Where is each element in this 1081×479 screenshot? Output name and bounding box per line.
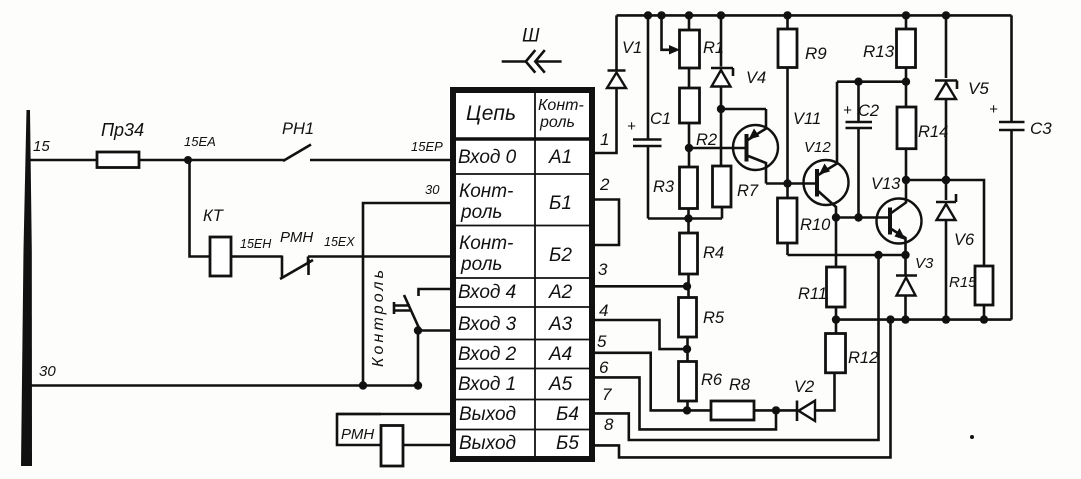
svg-text:1: 1	[600, 130, 609, 149]
junction	[359, 381, 367, 389]
node R11/R12 on bottom rail	[832, 315, 840, 323]
resistor R15	[975, 266, 993, 305]
node R8/V2/pin6	[772, 406, 780, 414]
left harness bus bar	[21, 110, 32, 466]
svg-text:15ЕР: 15ЕР	[411, 139, 443, 154]
svg-text:R5: R5	[703, 309, 725, 327]
wire pin 6	[592, 377, 776, 429]
junction	[414, 381, 422, 389]
svg-text:R11: R11	[798, 285, 827, 303]
svg-text:5: 5	[597, 332, 607, 351]
wire Б1 row to 30 bus	[363, 203, 453, 386]
node V4 / V11 emitter / R7	[717, 105, 725, 113]
resistor R7	[713, 166, 732, 207]
transistor V11	[733, 125, 778, 170]
pushbutton actuator	[394, 302, 410, 314]
resistor R8	[711, 401, 754, 420]
svg-text:8: 8	[604, 415, 614, 434]
rheostat wiper arrow to R1	[662, 15, 673, 49]
svg-text:15ЕХ: 15ЕХ	[324, 235, 355, 249]
wire C1 bottom node	[648, 217, 722, 220]
resistor R14	[905, 82, 908, 180]
relay coil box	[381, 426, 403, 467]
svg-text:6: 6	[599, 358, 609, 377]
node R2 bottom / V11 base	[688, 123, 691, 167]
wire R8 to V2	[754, 409, 797, 412]
svg-text:С1: С1	[650, 110, 671, 128]
svg-text:А3: А3	[548, 314, 573, 335]
svg-text:R7: R7	[737, 182, 759, 200]
svg-text:V12: V12	[804, 139, 831, 156]
resistor R9	[786, 15, 789, 198]
svg-text:2: 2	[599, 175, 610, 194]
svg-text:РМН: РМН	[341, 426, 374, 443]
svg-text:Б2: Б2	[549, 245, 572, 266]
svg-text:V2: V2	[794, 378, 814, 396]
svg-text:R3: R3	[653, 178, 675, 196]
stray ink speck	[970, 435, 974, 439]
svg-text:Конт-: Конт-	[459, 233, 513, 254]
capacitor C1	[647, 15, 650, 218]
resistor R3	[680, 167, 698, 209]
svg-text:15: 15	[33, 138, 50, 155]
svg-text:Выход: Выход	[459, 404, 516, 425]
relay contact KT	[210, 237, 231, 276]
svg-text:R12: R12	[848, 349, 878, 367]
node pin3	[683, 282, 691, 290]
wire pin 3	[592, 285, 688, 288]
zener V6	[936, 194, 956, 202]
svg-text:V13: V13	[871, 175, 901, 193]
svg-text:Б5: Б5	[556, 433, 579, 454]
svg-text:роль: роль	[460, 202, 502, 223]
svg-text:15ЕН: 15ЕН	[240, 237, 272, 251]
relay coil РМН assembly: label frame	[337, 414, 381, 445]
node 15EA	[184, 156, 192, 164]
wire 15EH	[231, 255, 282, 258]
bus 30	[29, 384, 419, 387]
zener V4	[711, 68, 733, 76]
wire coil to row Б5	[403, 444, 453, 447]
svg-text:Ш: Ш	[522, 26, 540, 47]
resistor R13	[905, 15, 908, 81]
svg-text:Цепь: Цепь	[466, 102, 516, 125]
svg-text:Конт-: Конт-	[459, 181, 513, 202]
pushbutton Контроль: fixed contact wire to table	[419, 289, 454, 296]
svg-text:+: +	[843, 102, 852, 119]
svg-text:30: 30	[39, 363, 56, 380]
svg-text:7: 7	[602, 385, 612, 404]
svg-text:V4: V4	[746, 69, 766, 87]
svg-text:R6: R6	[701, 371, 723, 389]
wire R2 node to V11 base	[689, 147, 747, 150]
table row lines	[451, 174, 595, 430]
svg-text:Вход 4: Вход 4	[458, 282, 516, 303]
svg-text:С3: С3	[1030, 119, 1052, 138]
svg-text:Б4: Б4	[556, 404, 579, 425]
wire pin 8	[592, 320, 891, 458]
top supply rail	[617, 14, 1012, 17]
svg-text:R15: R15	[949, 274, 977, 291]
node at blade bottom	[414, 326, 422, 334]
diode V3	[904, 255, 907, 320]
node pin5 / R8	[683, 406, 691, 414]
node V13 emitter / R10 / pin7	[788, 254, 906, 257]
svg-text:С2: С2	[858, 102, 879, 120]
svg-text:А1: А1	[548, 147, 572, 168]
svg-text:А4: А4	[548, 344, 572, 365]
resistor R10	[778, 198, 798, 243]
svg-text:R4: R4	[703, 244, 724, 262]
wire node to table row Вход 3	[418, 329, 453, 332]
diode V1	[608, 69, 626, 72]
svg-text:15ЕА: 15ЕА	[184, 134, 216, 149]
capacitor C3	[1010, 15, 1013, 319]
svg-text:R13: R13	[863, 42, 895, 61]
transistor V13	[877, 199, 922, 244]
capacitor C2	[857, 82, 860, 218]
node pin4	[683, 345, 691, 353]
svg-text:РМН: РМН	[280, 229, 313, 246]
wire 15 from bus to fuse	[29, 159, 97, 162]
table column divider	[534, 90, 536, 459]
svg-text:Контроль: Контроль	[370, 270, 387, 367]
zener V5	[935, 81, 957, 90]
svg-text:Вход 1: Вход 1	[458, 374, 516, 395]
pushbutton blade	[404, 295, 419, 328]
diode V2	[796, 401, 799, 422]
svg-text:Выход: Выход	[459, 433, 516, 454]
wire pin 7	[592, 255, 879, 440]
svg-text:+: +	[627, 118, 636, 135]
svg-text:Конт-: Конт-	[538, 97, 584, 114]
svg-text:R14: R14	[918, 123, 948, 141]
transistor V12	[804, 160, 849, 205]
wire node down to bus 30	[417, 331, 420, 386]
node V12 emitter / V13 base / R11	[832, 213, 840, 221]
svg-text:роль: роль	[460, 254, 502, 275]
svg-text:V11: V11	[793, 110, 821, 128]
svg-text:R10: R10	[800, 216, 831, 234]
resistor R2	[680, 88, 700, 123]
resistor R4	[680, 233, 698, 274]
wire from node 15EA down to KT	[190, 160, 211, 257]
wire collector node to V5/V6 and R15	[906, 180, 984, 266]
pin 2 jumper Б1-Б2	[592, 200, 619, 246]
svg-text:КТ: КТ	[203, 207, 225, 225]
svg-text:V6: V6	[954, 231, 975, 249]
svg-text:V1: V1	[622, 39, 642, 57]
svg-text:30: 30	[425, 182, 440, 197]
svg-text:РН1: РН1	[282, 120, 314, 138]
table header divider	[451, 137, 595, 140]
svg-text:роль: роль	[539, 114, 575, 131]
svg-text:Б1: Б1	[549, 193, 572, 214]
svg-text:4: 4	[599, 301, 608, 320]
svg-text:V3: V3	[915, 255, 934, 272]
resistor R5	[679, 298, 697, 338]
bottom node rail	[836, 318, 1012, 321]
svg-text:3: 3	[598, 260, 608, 279]
wire 15EX to table (crosses vertical)	[308, 255, 453, 258]
svg-text:Вход 2: Вход 2	[458, 344, 517, 365]
diode V1 branch: pin1 wire	[592, 15, 617, 153]
wire pin 4	[592, 320, 686, 349]
svg-text:А5: А5	[548, 374, 573, 395]
wire to V12 base	[766, 182, 817, 185]
connector table outline	[453, 90, 592, 459]
svg-text:R2: R2	[696, 131, 717, 149]
wire V12 collector line to R13 bottom	[837, 80, 906, 83]
svg-text:R9: R9	[805, 44, 827, 63]
wire pin 5	[592, 353, 711, 411]
wire 15EA	[139, 159, 284, 162]
svg-text:А2: А2	[548, 282, 573, 303]
wire to V13 base + down to R11	[836, 218, 890, 268]
zener V4 branch	[720, 15, 723, 166]
wire V2 to R12 bottom	[815, 373, 835, 411]
zener V5 branch	[945, 15, 948, 319]
svg-text:V5: V5	[968, 79, 989, 98]
node R14 / V13 collector	[902, 176, 910, 184]
wire V4 node to V11 emitter	[721, 108, 766, 111]
svg-text:+: +	[989, 101, 998, 118]
node V11 collector / R9 / R10 / V12 base	[783, 179, 791, 187]
resistor R1	[688, 15, 691, 88]
fuse Пр34	[97, 152, 139, 168]
svg-text:R8: R8	[729, 376, 751, 394]
svg-text:Пр34: Пр34	[101, 120, 144, 140]
wire 15EP to table	[310, 159, 453, 162]
svg-text:Вход 3: Вход 3	[458, 314, 517, 335]
resistor R11	[827, 267, 846, 307]
resistor R6	[679, 362, 697, 402]
svg-text:Вход 0: Вход 0	[458, 147, 517, 168]
wire row Б4 to frame top	[337, 413, 453, 416]
resistor R12	[826, 334, 846, 373]
node V5/V6	[942, 176, 950, 184]
